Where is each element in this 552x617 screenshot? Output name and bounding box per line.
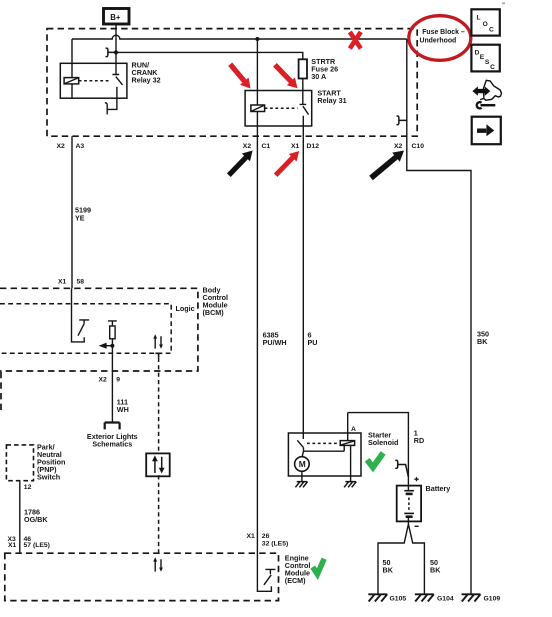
relay 32 coil-switch dashed link: [79, 80, 111, 82]
svg-text:Battery: Battery: [426, 484, 451, 493]
arrow icon box: [472, 117, 501, 145]
starter solenoid box: [288, 433, 361, 476]
svg-text:M: M: [299, 459, 306, 469]
ground G104: [415, 594, 454, 602]
BCM left edge continuation dashes: [0, 372, 2, 411]
inline connector hook at battery positive: [395, 460, 408, 477]
svg-text:X2: X2: [394, 143, 403, 150]
black arrow at pin C10 (up-right): [369, 151, 404, 181]
pin label X1 D12: [291, 143, 319, 150]
wire 1786 OG/BK label: [24, 507, 48, 524]
wire 5199 YE label: [75, 206, 91, 223]
svg-text:12: 12: [24, 484, 32, 491]
diagnostic tools icon: [472, 80, 501, 108]
svg-text:X1: X1: [58, 279, 67, 286]
svg-text:BK: BK: [383, 565, 394, 574]
green checkmark at starter solenoid: [367, 453, 383, 467]
svg-text:L: L: [477, 15, 481, 22]
BCM bidirectional updown arrows: [153, 334, 163, 349]
svg-text:PU/WH: PU/WH: [263, 338, 287, 347]
wire bus line1 to relay coils and C10 (with hop over B+ wire): [72, 35, 407, 39]
svg-text:26: 26: [262, 533, 270, 540]
fuse block - underhood label: [420, 29, 465, 44]
wire 1 RD label: [414, 429, 424, 446]
ground G105: [368, 594, 406, 602]
red arrow at relay 31 coil (down-right): [228, 63, 250, 89]
STRTR fuse 26 label: [311, 57, 338, 81]
ground at solenoid coil: [344, 482, 356, 488]
terminal hook at C10: [397, 116, 407, 125]
svg-text:30 A: 30 A: [311, 72, 326, 81]
red arrow at relay 31 switch (down-right): [273, 63, 298, 88]
svg-text:C: C: [490, 64, 495, 71]
BCM pull-up resistor: [108, 321, 117, 371]
body control module BCM dashed box: [0, 288, 198, 371]
red ellipse around fuse block label: [409, 16, 471, 61]
battery plus label: [414, 477, 418, 481]
dashed serial data wire BCM to updown box: [158, 358, 160, 453]
ground at starter motor: [295, 482, 307, 488]
pin label X2 C10: [394, 143, 424, 150]
DESC icon box: [471, 45, 499, 72]
wire bus line2 B+ to STRTR fuse: [116, 52, 303, 59]
green checkmark at ECM: [313, 559, 324, 574]
starter solenoid coil: [340, 413, 354, 482]
svg-text:Logic: Logic: [176, 304, 195, 313]
wire 6 PU label: [308, 331, 318, 348]
svg-text:58: 58: [77, 279, 85, 286]
relay 32 switch: [105, 52, 123, 114]
wire 6385 PU/WH label: [263, 331, 287, 348]
svg-text:Solenoid: Solenoid: [368, 438, 398, 447]
black arrow at pin C1 (up-right): [227, 151, 253, 178]
node junction dot start relay coil on line1: [255, 37, 259, 41]
relay 32 label: [132, 61, 161, 85]
svg-text:Schematics: Schematics: [92, 440, 132, 449]
relay 31 switch: [300, 91, 309, 137]
svg-text:(ECM): (ECM): [285, 576, 306, 585]
svg-text:C1: C1: [262, 143, 271, 150]
svg-text:RD: RD: [414, 436, 424, 445]
wire 111 WH label: [117, 397, 129, 414]
B+ power feed box: [104, 9, 130, 25]
svg-text:Fuse Block –: Fuse Block –: [422, 29, 465, 36]
svg-text:57 (LE5): 57 (LE5): [24, 542, 50, 549]
wire B+ drop: [115, 24, 117, 52]
svg-text:O: O: [483, 21, 488, 28]
svg-text:G105: G105: [390, 595, 407, 602]
svg-text:C10: C10: [412, 143, 425, 150]
starter solenoid switch contact: [297, 440, 344, 457]
wire 50 BK left label: [383, 558, 394, 575]
logic box T pin for serial data: [155, 353, 162, 358]
svg-text:A3: A3: [76, 143, 85, 150]
terminal hook on line2 at relay 32 switch feed: [106, 48, 117, 57]
LOC icon box: [471, 9, 499, 35]
pin label X1 26 / 32 (LE5) at ECM: [247, 533, 289, 547]
ground G109: [462, 594, 501, 602]
relay 31 coil: [251, 39, 265, 136]
svg-text:32 (LE5): 32 (LE5): [262, 541, 288, 548]
svg-text:X1: X1: [247, 533, 256, 540]
BCM label: [203, 285, 229, 317]
svg-text:OG/BK: OG/BK: [24, 515, 48, 524]
fuse block - underhood dashed box: [47, 29, 417, 137]
engine control module ECM dashed box: [5, 553, 279, 600]
red X mark on line1: [350, 32, 361, 49]
relay 31 coil-switch dashed link: [265, 107, 298, 109]
exterior lights label: [87, 432, 138, 449]
svg-text:B+: B+: [110, 13, 121, 22]
svg-text:X1: X1: [291, 143, 300, 150]
RUN/CRANK relay 32 box: [60, 63, 127, 98]
ECM label: [285, 554, 311, 586]
pin label X3 46 / X1 57 (LE5): [8, 536, 50, 549]
relay 31 label: [317, 88, 346, 105]
node junction dot B+ line2: [114, 50, 118, 54]
svg-text:C: C: [489, 27, 494, 34]
PNP switch label: [37, 443, 65, 482]
svg-text:G109: G109: [484, 595, 501, 602]
pin label X2 C1: [243, 143, 271, 150]
START relay 31 box: [245, 91, 312, 127]
pin label X2 A3: [57, 143, 85, 150]
pin label X2 9: [99, 377, 121, 384]
battery minus label: [415, 525, 419, 527]
starter motor M: [295, 457, 310, 482]
svg-text:X2: X2: [243, 143, 252, 150]
battery: [397, 486, 421, 522]
exterior lights off-page connector: [105, 423, 120, 430]
wire 111 WH: [111, 371, 113, 422]
BCM crank request switch: [72, 288, 90, 342]
svg-text:(BCM): (BCM): [203, 308, 225, 317]
svg-text:BK: BK: [430, 565, 441, 574]
svg-text:X1: X1: [8, 542, 17, 549]
svg-text:BK: BK: [477, 337, 488, 346]
svg-text:9: 9: [116, 377, 120, 384]
svg-text:WH: WH: [117, 405, 129, 414]
starter solenoid coil dashed link: [307, 442, 338, 444]
wire 1786 OG/BK from PNP: [19, 481, 21, 554]
logic dashed box inside BCM: [0, 304, 171, 354]
svg-text:X2: X2: [57, 143, 66, 150]
serial data updown box: [146, 453, 170, 476]
svg-text:Switch: Switch: [37, 473, 60, 482]
red arrow at pin X1 D12 (up-right): [274, 151, 299, 177]
svg-text:YE: YE: [75, 213, 85, 222]
wire C10 down from line1 then over to 350 BK: [407, 39, 471, 594]
battery negative wire split to grounds: [378, 517, 424, 595]
STRTR fuse 26: [299, 59, 307, 90]
svg-text:Relay 32: Relay 32: [132, 76, 161, 85]
park/neutral position switch dashed box: [6, 445, 33, 481]
ECM updown arrows: [153, 557, 163, 572]
pin label X1 58 at BCM: [58, 279, 84, 286]
relay 32 coil: [64, 39, 79, 98]
ECM crank request switch: [257, 553, 275, 591]
wire 50 BK right label: [430, 558, 441, 575]
svg-text:Relay 31: Relay 31: [317, 96, 346, 105]
svg-text:D12: D12: [307, 143, 320, 150]
dashed serial data wire to ECM: [158, 475, 160, 553]
starter solenoid label: [368, 431, 398, 448]
svg-text:X2: X2: [99, 377, 108, 384]
BCM output drive arrow (left): [99, 343, 115, 349]
svg-text:A: A: [351, 426, 356, 433]
wire 5199 YE from A3 to BCM: [71, 136, 73, 288]
wire 6385 PU/WH from C1 to ECM: [256, 136, 258, 553]
stray speck: [502, 2, 505, 4]
wire 6 PU from D12 to starter solenoid: [302, 136, 304, 439]
svg-text:Underhood: Underhood: [420, 37, 457, 44]
wire 1 RD from A to battery: [348, 413, 409, 491]
svg-text:G104: G104: [437, 595, 454, 602]
svg-text:PU: PU: [308, 338, 318, 347]
wire 350 BK label: [477, 329, 489, 346]
